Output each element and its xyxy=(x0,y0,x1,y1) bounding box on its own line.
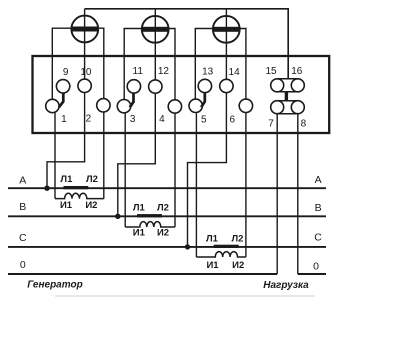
jumper link between pair 15/16 and pair 7/8 xyxy=(285,92,288,101)
current transformer TA3 primary bar xyxy=(214,245,239,248)
svg-text:6: 6 xyxy=(230,114,236,125)
svg-text:15: 15 xyxy=(265,66,277,77)
current transformer TA2 primary bar xyxy=(137,214,162,217)
svg-text:А: А xyxy=(315,174,322,186)
svg-text:В: В xyxy=(19,201,26,213)
terminal 9 circle xyxy=(56,80,69,93)
svg-text:А: А xyxy=(19,175,26,187)
neutral line 0 load side xyxy=(298,273,326,275)
terminal 12 circle xyxy=(149,80,162,93)
top bus wire from element 1 to terminals 15/16 xyxy=(85,9,289,79)
terminal 4 circle xyxy=(168,100,181,113)
svg-text:Л2: Л2 xyxy=(232,234,244,245)
wire terminal 10 down, left, to phase A junction xyxy=(47,92,85,188)
current transformer TA1 secondary coil xyxy=(55,193,104,198)
svg-text:4: 4 xyxy=(159,114,165,125)
svg-text:8: 8 xyxy=(301,119,307,130)
terminal 13 circle xyxy=(198,79,211,92)
meter terminal box xyxy=(33,56,330,133)
faint scan artifact line xyxy=(55,295,315,297)
svg-text:Нагрузка: Нагрузка xyxy=(263,280,309,291)
wire left branch of element 1 down to terminal 1 xyxy=(52,28,71,106)
junction node phase B xyxy=(115,214,120,219)
wire terminal 8 down to neutral load side xyxy=(297,114,299,274)
svg-text:В: В xyxy=(315,202,322,214)
measuring element U2 (circle with thick bar) xyxy=(142,16,169,43)
svg-text:Л1: Л1 xyxy=(60,174,73,185)
wire right branch of element 3 down to terminal 6 and CT3 secondary xyxy=(240,29,246,258)
terminal 10 circle xyxy=(78,79,91,92)
terminal 5 circle xyxy=(189,99,202,112)
measuring element U1 (circle with thick bar) xyxy=(71,16,98,43)
svg-text:И1: И1 xyxy=(60,200,73,211)
wire terminal 5 drain to CT3 secondary xyxy=(195,109,197,257)
svg-text:0: 0 xyxy=(20,259,26,271)
terminal 11 circle xyxy=(127,80,140,93)
svg-text:3: 3 xyxy=(130,114,136,125)
svg-text:И1: И1 xyxy=(133,228,146,239)
svg-text:10: 10 xyxy=(80,67,92,78)
current transformer TA3 secondary coil xyxy=(196,252,246,257)
jumper link terminal 13 to terminal 5 xyxy=(201,93,205,108)
svg-text:С: С xyxy=(19,232,27,244)
neutral line 0 generator side xyxy=(8,273,277,275)
terminals 7/8 linked pair (lower) xyxy=(271,101,305,114)
wire phase B element: vertical through measuring element 2 down to terminal 12 xyxy=(154,9,156,80)
svg-text:12: 12 xyxy=(158,66,170,77)
wire phase A element: vertical through measuring element 1 down to terminal 10 xyxy=(84,9,86,79)
junction node phase C xyxy=(185,244,190,249)
svg-text:0: 0 xyxy=(313,260,319,272)
terminal 2 circle xyxy=(97,99,110,112)
jumper link terminal 11 to terminal 3 xyxy=(130,93,134,108)
terminal 3 circle xyxy=(117,100,130,113)
terminal 14 circle xyxy=(220,79,233,92)
svg-text:Л2: Л2 xyxy=(86,174,98,185)
svg-text:И2: И2 xyxy=(85,200,97,211)
current transformer TA2 secondary coil xyxy=(125,222,175,227)
svg-text:13: 13 xyxy=(202,66,214,77)
measuring element U3 (circle with thick bar) xyxy=(213,16,240,43)
wire right branch of element 2 down to terminal 4 and CT2 secondary xyxy=(169,29,176,228)
svg-text:И2: И2 xyxy=(232,260,244,271)
svg-text:Генератор: Генератор xyxy=(27,280,82,291)
terminal 1 circle xyxy=(46,99,59,112)
terminals 15/16 linked pair (upper) xyxy=(271,79,305,92)
svg-text:1: 1 xyxy=(61,114,67,125)
svg-text:С: С xyxy=(314,232,322,244)
svg-text:Л1: Л1 xyxy=(206,234,219,245)
svg-text:14: 14 xyxy=(229,67,241,78)
wire terminal 12 down, left, to phase B junction xyxy=(118,93,156,216)
svg-text:И2: И2 xyxy=(157,228,169,239)
phase line A xyxy=(8,187,326,189)
wire right branch of element 1 down to terminal 2 and CT1 secondary xyxy=(98,28,104,198)
junction node phase A xyxy=(44,186,49,191)
svg-text:16: 16 xyxy=(291,66,303,77)
svg-text:11: 11 xyxy=(133,66,144,77)
phase line B xyxy=(8,215,326,217)
svg-text:И1: И1 xyxy=(206,260,219,271)
current transformer TA1 primary bar xyxy=(64,186,89,189)
svg-text:7: 7 xyxy=(268,119,274,130)
svg-text:2: 2 xyxy=(86,114,92,125)
wire left branch of element 2 down to terminal 3 xyxy=(124,29,142,107)
wire terminal 1 drain to CT1 secondary xyxy=(54,110,56,199)
svg-text:Л1: Л1 xyxy=(133,203,146,214)
wire terminal 14 down, left, to phase C junction xyxy=(188,92,227,247)
jumper link terminal 9 to terminal 1 xyxy=(59,93,63,108)
wire phase C element: vertical through measuring element 3 down to terminal 14 xyxy=(225,9,227,80)
phase line C xyxy=(8,246,326,248)
wire terminal 7 down to neutral generator side xyxy=(276,114,278,274)
wire left branch of element 3 down to terminal 5 xyxy=(195,29,213,106)
svg-text:9: 9 xyxy=(63,67,69,78)
wire terminal 3 drain to CT2 secondary xyxy=(124,110,126,227)
svg-text:Л2: Л2 xyxy=(157,203,169,214)
svg-text:5: 5 xyxy=(201,114,207,125)
terminal 6 circle xyxy=(239,99,252,112)
